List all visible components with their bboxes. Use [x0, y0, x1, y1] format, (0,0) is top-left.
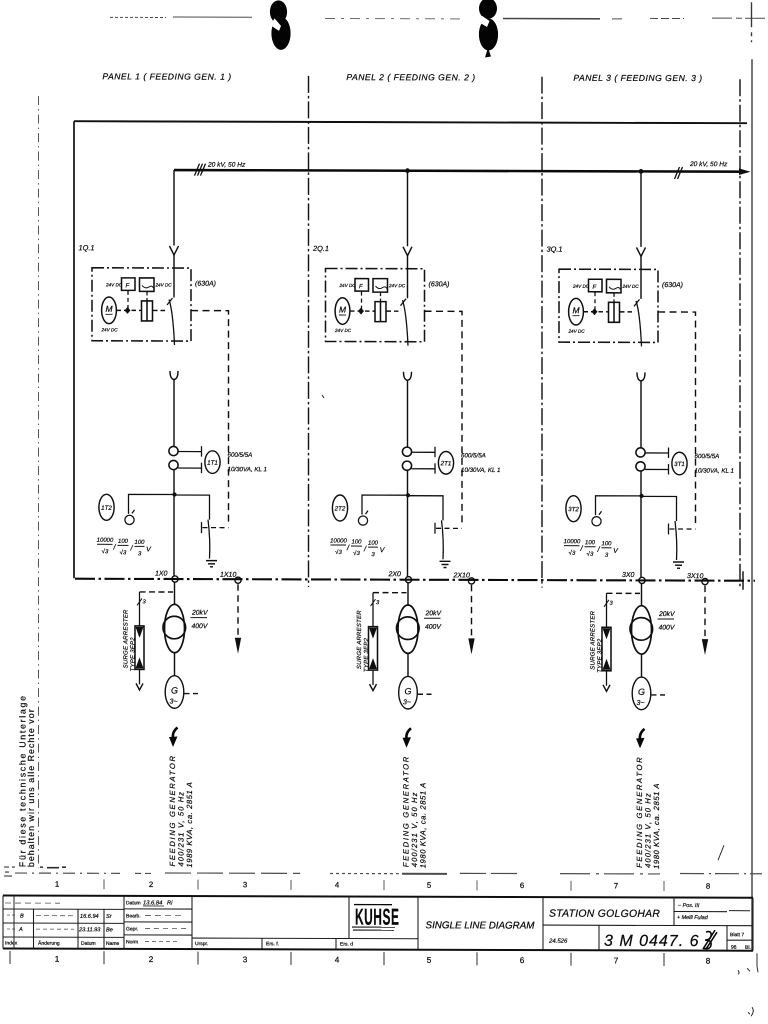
control dashes latch to blade panel 2	[387, 310, 402, 312]
wire: breaker to CT panel 1	[173, 380, 175, 447]
control dashes motor to latch panel 2	[350, 310, 375, 312]
terminal 3X10	[702, 578, 708, 584]
svg-text:1X10: 1X10	[220, 572, 236, 579]
VT ratio 10000/sqrt3 / 100/sqrt3 / 100/3 V panel 3	[564, 539, 620, 559]
control dashes motor to latch panel 1	[117, 309, 142, 311]
VT winding symbol panel 3	[592, 511, 602, 526]
spring motor M panel 3	[569, 298, 584, 325]
svg-text:PANEL 1 ( FEEDING GEN. 1 ): PANEL 1 ( FEEDING GEN. 1 )	[102, 71, 231, 81]
wire: transformer to generator panel 3	[641, 654, 643, 678]
interlock dashes panel 1	[203, 527, 229, 529]
generator G 3~ panel 3	[632, 677, 651, 710]
generator dash lead panel 1	[185, 693, 201, 695]
svg-text:4: 4	[335, 955, 340, 964]
interlock dashes panel 2	[436, 527, 462, 529]
svg-text:100: 100	[134, 540, 145, 546]
svg-text:1980 KVA, ca. 2851 A: 1980 KVA, ca. 2851 A	[652, 783, 661, 869]
surge arrester branch dashes panel 2	[373, 592, 407, 594]
wire: X0 to transformer panel 1	[174, 582, 176, 605]
svg-text:+ Melli Fulad: + Melli Fulad	[677, 915, 709, 921]
transformer ratio label panel 1	[191, 610, 209, 631]
panel separator 1/2	[308, 76, 310, 587]
latch mechanism panel 1	[142, 301, 153, 321]
busbar 3-phase slashes right	[675, 167, 683, 179]
svg-text:Bl.: Bl.	[745, 945, 751, 951]
svg-text:10/30VA, KL 1: 10/30VA, KL 1	[461, 467, 500, 474]
svg-text:16.6.94: 16.6.94	[80, 914, 99, 920]
release coil box panel 2	[373, 279, 388, 293]
spring motor M panel 1	[102, 297, 117, 324]
svg-text:24V DC: 24V DC	[339, 283, 357, 288]
zone numbers top row	[55, 880, 710, 891]
svg-text:B: B	[20, 914, 24, 920]
svg-text:behalten wir uns alle Rechte v: behalten wir uns alle Rechte vor	[26, 708, 36, 867]
outgoing feeder dashed with arrow panel 2	[471, 585, 473, 638]
withdrawable contact lower panel 2	[404, 372, 412, 381]
wire: tap to earthing switch panel 1	[174, 495, 210, 520]
wire: arrester lead panel 3	[606, 593, 608, 627]
svg-text:10000: 10000	[97, 538, 114, 544]
junction diamond panel 1	[125, 307, 131, 314]
svg-text:3T1: 3T1	[674, 461, 685, 468]
breaker blade tip tick panel 2	[401, 299, 407, 306]
control wiring dashed panel 3	[658, 312, 696, 526]
CT designator 2T1	[438, 452, 453, 475]
panel separator 2/3	[541, 77, 543, 588]
current transformer 1T1 core 1	[169, 446, 178, 455]
wire: feeder drop from bus panel 2	[407, 171, 409, 247]
busbar 3-phase slashes left	[195, 164, 206, 176]
breaker blade tip tick panel 3	[634, 299, 640, 306]
wire: arrester to earth panel 1	[139, 669, 141, 684]
latch mechanism panel 3	[609, 302, 620, 322]
terminal 2X0	[405, 577, 411, 583]
fuse F panel 2	[355, 279, 369, 292]
inner bottom broken line	[15, 872, 762, 876]
svg-text:3: 3	[243, 955, 248, 964]
svg-text:2T2: 2T2	[334, 505, 346, 512]
terminal 1X0	[172, 576, 178, 582]
svg-text:G: G	[171, 686, 178, 696]
punch hole left	[270, 0, 291, 50]
svg-text:600/5/5A: 600/5/5A	[695, 453, 720, 460]
wire: tap to voltage transformer panel 1	[129, 494, 175, 514]
svg-text:2Q.1: 2Q.1	[312, 244, 329, 253]
svg-text:3X10: 3X10	[687, 573, 703, 580]
svg-text:Datum: Datum	[126, 900, 141, 906]
transformer 3 secondary winding	[630, 618, 653, 641]
svg-text:1: 1	[55, 955, 60, 964]
3-phase mark on arrester lead panel 1	[137, 598, 142, 605]
svg-text:F: F	[359, 284, 363, 290]
generator G 3~ panel 1	[165, 676, 184, 709]
node: VT tap junction panel 1	[172, 492, 176, 496]
svg-text:Blatt 7: Blatt 7	[730, 932, 744, 938]
svg-text:KUHSE: KUHSE	[355, 903, 399, 929]
svg-text:20 kV, 50 Hz: 20 kV, 50 Hz	[207, 162, 246, 169]
earth arrow below arrester panel 3	[603, 685, 610, 692]
svg-text:Datum: Datum	[81, 941, 96, 947]
svg-text:2X0: 2X0	[388, 571, 402, 578]
transformer 2 primary winding	[398, 605, 418, 653]
svg-text:10/30VA, KL 1: 10/30VA, KL 1	[695, 468, 734, 475]
bus tap junction panel 2	[405, 168, 410, 173]
svg-text:F: F	[593, 285, 597, 291]
VT ratio 10000/sqrt3 / 100/sqrt3 / 100/3 V panel 1	[97, 538, 153, 558]
svg-text:− Pos. III: − Pos. III	[678, 903, 700, 909]
svg-text:√3: √3	[335, 549, 342, 556]
VT designator 1T2	[99, 494, 114, 520]
circuit breaker 2Q1 cubicle (dash-dot box)	[326, 268, 425, 341]
svg-text:100: 100	[368, 541, 379, 547]
current transformer 2T1 core 2	[402, 461, 411, 470]
svg-text:3X0: 3X0	[622, 572, 635, 579]
svg-text:20kV: 20kV	[658, 611, 676, 618]
svg-text:2X10: 2X10	[453, 572, 470, 579]
feeding generator note panel 2	[402, 755, 428, 868]
generator dash lead panel 2	[418, 693, 434, 695]
outgoing feeder dashed with arrow panel 1	[237, 584, 239, 637]
origin row	[195, 941, 353, 947]
withdrawable contact upper (female) panel 1	[170, 246, 179, 255]
svg-text:Index: Index	[5, 941, 18, 947]
node: VT tap junction panel 3	[639, 494, 643, 498]
surge arrester body panel 1	[135, 626, 144, 670]
wire: CT to X0 terminal panel 2	[407, 470, 409, 577]
svg-text:SURGE ARRESTER: SURGE ARRESTER	[357, 610, 363, 669]
wire: transformer to generator panel 2	[407, 653, 409, 677]
svg-text:400V: 400V	[425, 624, 442, 631]
svg-text:PANEL 2 ( FEEDING GEN. 2 ): PANEL 2 ( FEEDING GEN. 2 )	[346, 72, 475, 82]
svg-text:10/30VA, KL 1: 10/30VA, KL 1	[228, 466, 267, 473]
wire: CT to X0 terminal panel 1	[173, 470, 175, 577]
stray marks	[4, 394, 758, 1016]
transformer 2 secondary winding	[397, 617, 420, 640]
withdrawable contact upper (female) panel 3	[637, 247, 646, 256]
svg-text:20kV: 20kV	[191, 610, 209, 617]
control wiring dashed panel 1	[191, 311, 229, 525]
svg-text:100: 100	[351, 540, 362, 546]
CT secondary stub 1 panel 1	[178, 446, 202, 457]
svg-text:24V DC: 24V DC	[334, 328, 352, 333]
svg-text:8: 8	[706, 882, 710, 891]
svg-text:Gepr.: Gepr.	[126, 926, 138, 932]
svg-text:24V DC: 24V DC	[155, 282, 173, 287]
svg-text:3~: 3~	[637, 700, 645, 707]
svg-text:TYPE 3EP2: TYPE 3EP2	[364, 637, 370, 672]
surge arrester text panel 2	[357, 610, 370, 672]
earthing switch drive bar panel 3	[668, 523, 670, 534]
control dashes latch to blade panel 3	[620, 311, 635, 313]
svg-text:24.526: 24.526	[548, 939, 568, 945]
wire: CT to X0 terminal panel 3	[640, 471, 642, 578]
svg-text:M: M	[339, 305, 347, 315]
svg-text:20kV: 20kV	[425, 610, 443, 617]
svg-text:24V DC: 24V DC	[388, 283, 406, 288]
svg-text:TYPE 3EP2: TYPE 3EP2	[597, 638, 603, 673]
svg-text:STATION GOLGOHAR: STATION GOLGOHAR	[549, 909, 660, 920]
busbar arrowhead right	[739, 168, 751, 175]
svg-text:6: 6	[520, 881, 524, 890]
earthing switch drive bar panel 2	[434, 523, 436, 534]
wire: X0 to transformer panel 2	[407, 583, 409, 606]
svg-text:8: 8	[706, 957, 711, 966]
svg-text:TYPE 3EP2: TYPE 3EP2	[130, 637, 136, 672]
svg-text:2T1: 2T1	[440, 460, 452, 467]
junction diamond panel 3	[592, 308, 598, 315]
VT ratio 10000/sqrt3 / 100/sqrt3 / 100/3 V panel 2	[330, 538, 386, 558]
punch hole right	[479, 0, 499, 57]
control dashes latch to blade panel 1	[153, 309, 168, 311]
VT designator 2T2	[332, 495, 347, 521]
svg-text:7: 7	[614, 956, 619, 965]
wire: tap to voltage transformer panel 2	[362, 495, 408, 515]
spring motor M panel 2	[335, 298, 350, 325]
svg-text:SINGLE LINE DIAGRAM: SINGLE LINE DIAGRAM	[426, 920, 536, 931]
current transformer 3T1 core 2	[636, 462, 645, 471]
current transformer 1T1 core 2	[169, 460, 178, 469]
svg-text:G: G	[404, 686, 411, 696]
svg-text:(630A): (630A)	[195, 281, 216, 288]
wire: contact to breaker box panel 1	[173, 255, 175, 298]
paper right edge line	[751, 2, 754, 950]
withdrawable contact lower panel 1	[170, 371, 178, 380]
withdrawable contact upper (female) panel 2	[403, 247, 412, 256]
feeding generator note panel 3	[635, 756, 661, 869]
svg-text:10000: 10000	[564, 539, 581, 545]
wire: arrester lead panel 2	[372, 593, 374, 627]
svg-text:24V DC: 24V DC	[572, 284, 590, 289]
feeding generator note panel 1	[168, 754, 194, 867]
svg-text:√3: √3	[353, 550, 360, 557]
svg-text:24V DC: 24V DC	[101, 327, 119, 332]
svg-text:1Q.1: 1Q.1	[79, 243, 95, 252]
svg-text:√3: √3	[120, 549, 127, 556]
drawing frame left border	[73, 121, 75, 578]
earthing switch blade panel 1	[208, 520, 210, 559]
bus end tick right	[742, 571, 744, 590]
control dashes motor to latch panel 3	[584, 311, 609, 313]
svg-text:3 M 0447. 6: 3 M 0447. 6	[604, 933, 699, 950]
svg-text:1: 1	[55, 880, 59, 889]
junction diamond panel 2	[358, 308, 364, 315]
surge arrester branch dashes panel 1	[140, 591, 174, 593]
breaker blade tip tick panel 1	[167, 298, 173, 305]
zone numbers bottom row	[55, 955, 711, 966]
svg-text:4: 4	[335, 880, 340, 889]
dashes coil box to latch panel 3	[613, 293, 615, 302]
svg-text:(630A): (630A)	[429, 281, 450, 288]
3-phase mark on arrester lead panel 2	[371, 599, 376, 606]
surge arrester text panel 1	[124, 609, 137, 671]
svg-text:Ers. f.: Ers. f.	[266, 941, 279, 947]
title block outer frame	[3, 896, 753, 951]
transformer ratio label panel 2	[425, 610, 443, 631]
bus tap junction panel 3	[639, 169, 644, 174]
terminal 3X0	[639, 577, 645, 583]
fuse F panel 1	[122, 278, 136, 291]
generator dash lead panel 3	[652, 694, 668, 696]
svg-text:10000: 10000	[330, 538, 347, 544]
svg-text:100: 100	[601, 541, 612, 547]
wire: tap to earthing switch panel 2	[408, 496, 444, 521]
svg-text:23.11.93: 23.11.93	[78, 927, 101, 933]
hand arrow below generator panel 1	[173, 728, 178, 739]
transformer 1 primary winding	[165, 604, 185, 652]
svg-text:Änderung: Änderung	[38, 940, 60, 947]
LV collector bus (dash-dot)	[75, 579, 755, 581]
svg-text:Norm: Norm	[126, 939, 138, 945]
wire: transformer to generator panel 1	[174, 653, 176, 677]
approval block	[126, 900, 141, 945]
svg-text:5: 5	[427, 956, 432, 965]
wire: feeder drop from bus panel 1	[173, 170, 175, 246]
svg-text:√3: √3	[587, 551, 594, 558]
VT winding symbol panel 2	[358, 511, 368, 526]
KUHSE logo	[355, 903, 399, 929]
earth arrow below arrester panel 2	[370, 684, 377, 691]
circuit breaker 1Q1 cubicle (dash-dot box)	[92, 268, 191, 341]
svg-text:Be: Be	[106, 927, 113, 933]
CT secondary stub 2 panel 1	[178, 463, 202, 474]
scribbled B	[703, 930, 717, 949]
surge arrester body panel 2	[369, 627, 378, 671]
earthing switch drive bar panel 1	[201, 522, 203, 533]
CT secondary stub 1 panel 2	[412, 447, 436, 458]
svg-text:√3: √3	[102, 548, 109, 555]
svg-text:(630A): (630A)	[662, 282, 683, 289]
wire: arrester to earth panel 3	[606, 671, 608, 686]
surge arrester branch dashes panel 3	[607, 592, 641, 594]
svg-text:G: G	[638, 687, 645, 697]
earth arrow below arrester panel 1	[136, 683, 143, 690]
paper top edge broken line	[110, 16, 768, 19]
earthing switch blade panel 2	[442, 520, 444, 559]
wire: breaker to CT panel 3	[640, 381, 642, 448]
svg-text:6: 6	[520, 956, 525, 965]
latch mechanism panel 2	[375, 302, 386, 322]
svg-text:24V DC: 24V DC	[622, 284, 640, 289]
transformer 1 secondary winding	[163, 616, 186, 639]
dashes fuse to line panel 1	[127, 291, 129, 310]
fuse F panel 3	[589, 279, 603, 292]
dashes fuse to line panel 2	[361, 292, 363, 311]
svg-text:PANEL 3 ( FEEDING GEN. 3 ): PANEL 3 ( FEEDING GEN. 3 )	[573, 73, 702, 83]
blatt cell	[730, 932, 751, 951]
svg-text:2: 2	[149, 880, 153, 889]
revision table	[5, 940, 120, 947]
CT secondary stub 2 panel 2	[412, 463, 436, 474]
svg-text:96: 96	[731, 945, 737, 951]
transformer 3 primary winding	[632, 606, 652, 654]
wire: arrester to earth panel 2	[372, 670, 374, 685]
left margin copyright note	[18, 694, 36, 867]
svg-text:1T2: 1T2	[101, 505, 112, 512]
wire: arrester lead panel 1	[139, 592, 141, 626]
breaker blade panel 3	[636, 301, 642, 347]
dashes fuse to line panel 3	[594, 292, 596, 311]
svg-text:A: A	[18, 927, 23, 933]
hand arrow below generator panel 2	[406, 728, 411, 739]
release coil box panel 3	[607, 279, 622, 293]
svg-text:SURGE ARRESTER: SURGE ARRESTER	[591, 610, 597, 669]
CT secondary stub 2 panel 3	[645, 464, 669, 475]
earth symbol at switch panel 3	[673, 562, 684, 568]
surge arrester body panel 3	[602, 627, 611, 671]
drawing frame top border	[74, 121, 747, 123]
earth symbol at switch panel 1	[206, 561, 217, 567]
terminal 2X10	[468, 578, 474, 584]
CT designator 1T1	[205, 451, 220, 474]
svg-text:400V: 400V	[192, 623, 209, 630]
svg-text:7: 7	[614, 881, 618, 890]
hand arrow below generator panel 3	[640, 729, 645, 740]
CT secondary stub 1 panel 3	[645, 447, 669, 458]
control wiring dashed panel 2	[425, 311, 463, 525]
earth symbol at switch panel 2	[440, 561, 451, 567]
svg-text:3~: 3~	[403, 699, 411, 706]
VT winding symbol panel 1	[125, 510, 135, 525]
left margin dash-dot line	[38, 96, 40, 868]
20kV 50Hz busbar	[174, 170, 745, 172]
generator G 3~ panel 2	[399, 676, 418, 709]
CT designator 3T1	[672, 452, 687, 475]
circuit breaker 3Q1 cubicle (dash-dot box)	[559, 269, 658, 342]
svg-text:M: M	[105, 304, 113, 314]
svg-text:3T2: 3T2	[568, 506, 579, 513]
wire: contact to breaker box panel 2	[407, 256, 409, 299]
outgoing feeder dashed with arrow panel 3	[704, 586, 706, 639]
svg-text:2: 2	[149, 955, 154, 964]
svg-text:600/5/5A: 600/5/5A	[461, 452, 486, 459]
node: VT tap junction panel 2	[406, 493, 410, 497]
svg-text:Name: Name	[106, 941, 120, 947]
wire: tap to voltage transformer panel 3	[596, 496, 642, 516]
current transformer 2T1 core 1	[402, 447, 411, 456]
svg-text:5: 5	[427, 881, 432, 890]
svg-text:100: 100	[118, 539, 129, 545]
svg-text:3~: 3~	[170, 699, 178, 706]
breaker blade panel 2	[403, 300, 409, 346]
svg-text:100: 100	[585, 540, 596, 546]
svg-text:1X0: 1X0	[155, 570, 168, 577]
dashes coil box to latch panel 1	[146, 292, 148, 301]
breaker blade panel 1	[169, 300, 175, 346]
wire: breaker to CT panel 2	[407, 380, 409, 447]
svg-text:24V DC: 24V DC	[105, 282, 123, 287]
svg-text:Bearb.: Bearb.	[126, 913, 141, 919]
terminal 1X10	[235, 577, 241, 583]
surge arrester text panel 3	[591, 610, 604, 672]
svg-text:1989 KVA, ca. 2851 A: 1989 KVA, ca. 2851 A	[185, 782, 194, 868]
wire: feeder drop from bus panel 3	[640, 171, 642, 247]
svg-text:24V DC: 24V DC	[568, 329, 586, 334]
svg-text:600/5/5A: 600/5/5A	[228, 452, 253, 459]
current transformer 3T1 core 1	[636, 448, 645, 457]
pos labels	[677, 903, 709, 921]
svg-text:√3: √3	[569, 550, 576, 557]
panel 3 right boundary	[739, 79, 741, 589]
wire: contact to breaker box panel 3	[640, 256, 642, 299]
wire: tap to earthing switch panel 3	[641, 496, 677, 521]
svg-text:400V: 400V	[659, 624, 676, 631]
svg-text:Ri: Ri	[167, 900, 173, 906]
svg-text:3: 3	[243, 880, 247, 889]
svg-text:1980 KVA, ca. 2851 A: 1980 KVA, ca. 2851 A	[419, 782, 428, 868]
svg-text:M: M	[572, 305, 580, 315]
svg-text:SURGE ARRESTER: SURGE ARRESTER	[124, 609, 130, 668]
release coil box panel 1	[140, 278, 155, 292]
